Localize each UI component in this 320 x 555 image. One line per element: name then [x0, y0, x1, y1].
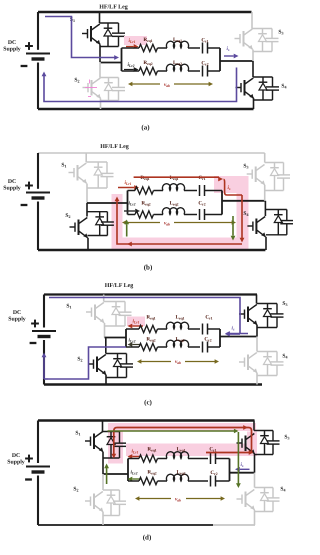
node a wire — [103, 473, 128, 475]
resistor Req1 — [139, 325, 158, 332]
current path purple top bus overlay — [49, 298, 240, 335]
junction bar right of tank — [221, 191, 223, 215]
wire top bus — [44, 293, 257, 295]
current arrow is pointing left — [240, 468, 250, 470]
diode D4 and capacitor C4 across S4 — [265, 209, 286, 211]
pink highlight right vertical — [247, 432, 257, 457]
wire left DC link — [37, 153, 39, 189]
inductor Leq2 — [166, 340, 188, 347]
wire S3 emitter grey — [264, 185, 266, 201]
wire S3 collector — [256, 295, 258, 304]
current path purple top segment — [45, 17, 115, 58]
node b wire — [220, 60, 253, 62]
wire Leq1 to Cr1 — [188, 328, 200, 330]
current path green arrow up at node a — [106, 468, 108, 485]
wire S2 collector grey — [99, 62, 101, 78]
node a wire — [105, 337, 127, 339]
capacitor Cr1 — [199, 185, 201, 196]
inductor Leq2 — [166, 474, 188, 481]
wire S4 emitter — [253, 98, 255, 109]
wire Leq1 to Cr1 — [184, 190, 197, 192]
current arrow iLr1 pointing left — [132, 325, 143, 327]
wire top bus grey — [38, 152, 265, 154]
diode D1 and capacitor C1 across S1 — [103, 431, 120, 433]
wire Cr1 to node b bar — [208, 328, 221, 330]
transistor S2 IGBT grey — [85, 500, 91, 502]
wire S1 collector grey — [103, 295, 105, 302]
gate off marks magenta on S2 — [85, 87, 97, 89]
current path green arrow down at S4 — [236, 483, 241, 488]
wire Cr2 to node b bar — [205, 214, 223, 216]
svg-text:S3: S3 — [243, 164, 248, 170]
wire Req2 to Leq2 — [158, 480, 168, 482]
battery minus sign — [21, 204, 28, 206]
wire S3 collector — [253, 421, 255, 431]
wire S4 emitter grey — [254, 510, 256, 525]
transistor S4 IGBT — [247, 225, 253, 227]
current path red jog down to is — [224, 179, 243, 195]
current path red arrow right into node b — [249, 450, 254, 455]
svg-text:S3: S3 — [282, 301, 287, 307]
svg-text:S2: S2 — [74, 78, 79, 84]
wire S2 emitter — [105, 375, 107, 385]
current path purple up to battery arrow — [43, 357, 45, 379]
wire bottom bus — [38, 524, 213, 526]
capacitor Cr1 — [202, 43, 204, 54]
capacitor Cr2 — [202, 342, 204, 353]
current path red arrow down at S4 — [240, 238, 245, 243]
svg-text:DC: DC — [12, 453, 20, 459]
transistor S1 IGBT grey — [69, 172, 75, 174]
current path red horizontal over Cr1 — [206, 452, 250, 454]
voltage arrow vab double-headed — [125, 222, 160, 224]
capacitor Cr1 — [202, 324, 204, 335]
current path red arrow right on top — [243, 425, 248, 430]
transistor S1 IGBT — [82, 33, 88, 35]
wire tank bottom branch lead — [122, 70, 140, 72]
battery plus sign — [25, 458, 33, 460]
svg-text:(a): (a) — [141, 124, 150, 132]
current path purple right and bottom return — [44, 68, 237, 102]
current path purple into node b arrow — [229, 333, 240, 335]
wire left DC link lower — [37, 202, 39, 251]
wire S1 collector grey — [85, 153, 87, 162]
current path red loop top — [114, 428, 252, 453]
wire Leq2 to Cr2 — [188, 480, 208, 482]
wire S2 emitter grey — [102, 512, 104, 525]
diode D4 and capacitor C4 across S4 — [253, 76, 273, 78]
wire left DC link lower — [37, 476, 39, 526]
battery minus sign — [21, 65, 28, 67]
current arrow iLr1 — [118, 187, 134, 189]
diode D1 and capacitor C1 across S1 grey — [104, 301, 125, 303]
wire Req1 to Leq1 — [158, 328, 168, 330]
current arrow iLr2 pointing left — [132, 344, 141, 346]
green arrow vcr right pointing down — [232, 216, 234, 236]
current arrow iLr2 — [124, 69, 134, 71]
resistor Req1 — [139, 455, 158, 462]
transistor S2 IGBT — [88, 363, 94, 365]
current path red arrow left on top branch — [132, 456, 141, 458]
capacitor Cr2 — [202, 66, 204, 77]
wire left DC link — [37, 421, 39, 464]
svg-text:S4: S4 — [280, 487, 285, 493]
battery V1 DC Supply — [26, 53, 50, 55]
battery plus sign — [31, 323, 39, 325]
capacitor Cr2 — [199, 209, 201, 220]
battery minus sign — [30, 342, 37, 344]
inductor Leq1 — [166, 452, 188, 459]
resistor Req2 — [139, 343, 158, 350]
transistor S2 IGBT grey — [83, 87, 89, 89]
junction bar left of tank — [127, 459, 129, 482]
wire Cr2 to node b bar — [208, 346, 221, 348]
wire S3 collector grey — [251, 12, 253, 29]
node b wire — [222, 200, 265, 202]
wire Leq1 to Cr1 — [188, 458, 208, 460]
capacitor Cr2 — [210, 476, 212, 487]
wire Leq2 to Cr2 — [184, 214, 197, 216]
resistor Req2 — [139, 477, 158, 484]
wire Req1 to Leq1 — [158, 458, 168, 460]
wire S3 emitter — [254, 454, 256, 473]
pink highlight bottom horizontal — [112, 238, 249, 250]
voltage arrow vab double-headed — [138, 498, 171, 500]
wire S1 collector — [99, 12, 101, 23]
resistor Req1 — [139, 44, 158, 51]
wire tank top branch lead — [128, 458, 139, 460]
diode D3 and capacitor C3 across S3 grey — [265, 162, 284, 164]
wire S1 collector — [102, 421, 104, 432]
current path red bottom horizontal — [117, 201, 242, 244]
svg-text:HF/LF Leg: HF/LF Leg — [105, 283, 134, 289]
diode D2 and capacitor C2 across S2 — [87, 211, 107, 213]
wire S4 collector — [264, 201, 266, 216]
wire S4 emitter grey — [256, 373, 258, 385]
wire Leq2 to Cr2 — [188, 346, 200, 348]
wire left DC link — [37, 12, 39, 50]
wire S1 emitter to node a — [99, 45, 101, 63]
junction bar right of tank — [229, 459, 231, 482]
wire S2 emitter — [87, 238, 89, 250]
inductor Leq2 — [162, 208, 184, 215]
current path red arrow right after Cr1 — [218, 177, 223, 182]
pink highlight Cr1 row — [126, 444, 247, 457]
wire Leq1 to Cr1 — [188, 47, 200, 49]
current path red right vertical down — [241, 195, 243, 239]
battery plus sign — [25, 45, 33, 47]
diode D2 and capacitor C2 across S2 — [106, 353, 127, 355]
wire S4 collector grey — [254, 473, 256, 488]
wire S1 emitter grey — [104, 323, 106, 338]
wire tank top branch lead — [128, 190, 136, 192]
battery minus sign — [25, 478, 32, 480]
diode D2 and capacitor C2 across S2 grey — [100, 77, 119, 79]
wire S2 emitter grey — [100, 99, 102, 110]
current path purple arrow up to battery — [42, 72, 47, 77]
pink highlight top horizontal — [108, 423, 256, 431]
wire bottom bus — [38, 108, 254, 111]
current path green right vertical — [237, 432, 239, 484]
capacitor Cr1 — [210, 453, 212, 464]
wire Req2 to Leq2 — [158, 346, 168, 348]
current path purple arrow into node a — [114, 55, 119, 60]
transistor S3 IGBT grey — [247, 173, 253, 175]
battery V1 DC Supply — [26, 466, 50, 468]
current path purple from node a down through S2 — [48, 347, 126, 379]
wire Req2 to Leq2 — [158, 70, 168, 72]
junction bar left of tank — [127, 191, 129, 215]
transistor S4 IGBT grey — [237, 498, 243, 500]
svg-text:S1: S1 — [66, 304, 71, 310]
pink highlight top corner — [214, 176, 249, 193]
current path red arrow left at bottom corner — [127, 242, 132, 247]
current path green loop top — [108, 430, 235, 432]
svg-text:S1: S1 — [75, 431, 80, 437]
wire top bus — [38, 11, 252, 14]
green arrow vcr left pointing up — [126, 224, 128, 236]
wire S1 emitter grey — [86, 184, 88, 204]
wire S2 collector — [86, 203, 88, 217]
wire left DC link lower — [43, 340, 45, 385]
wire S2 collector — [105, 338, 107, 354]
svg-text:S3: S3 — [278, 30, 283, 36]
battery V1 DC Supply — [26, 192, 50, 194]
wire Leq2 to Cr2 — [188, 70, 200, 72]
node a wire — [100, 62, 122, 64]
inductor Leq1 — [166, 322, 188, 329]
junction bar right of tank — [219, 329, 221, 347]
svg-text:(d): (d) — [143, 534, 152, 542]
current path red arrow up at node a — [115, 197, 120, 202]
diode D2 and capacitor C2 across S2 grey — [103, 489, 120, 491]
voltage arrow vab double-headed — [131, 83, 160, 85]
wire bottom bus — [38, 249, 265, 251]
wire S3 emitter grey — [252, 50, 254, 62]
transistor S4 IGBT — [236, 87, 242, 89]
current arrow is — [224, 55, 234, 57]
wire bottom bus — [44, 383, 262, 385]
wire S3 collector grey — [264, 153, 266, 163]
wire left DC link lower — [37, 63, 39, 110]
transistor S4 IGBT grey — [239, 361, 245, 363]
wire top bus — [38, 419, 255, 422]
junction bar left of tank — [125, 329, 127, 347]
svg-text:(b): (b) — [144, 264, 153, 272]
current arrow iLr2 — [124, 210, 135, 212]
svg-text:HF/LF Leg: HF/LF Leg — [99, 5, 128, 11]
svg-text:(c): (c) — [144, 399, 152, 407]
svg-text:S2: S2 — [77, 357, 82, 363]
svg-text:Supply: Supply — [3, 46, 21, 53]
diode D1 and capacitor C1 across S1 grey — [86, 161, 107, 163]
current path purple corner at bottom left — [44, 378, 48, 380]
wire Req1 to Leq1 — [158, 47, 168, 49]
inductor Leq2 — [166, 64, 188, 71]
wire S4 collector — [252, 61, 254, 77]
junction bar left of tank — [121, 48, 123, 71]
diode D4 and capacitor C4 across S4 grey — [255, 487, 274, 489]
transistor S3 IGBT — [237, 442, 243, 444]
diode D3 and capacitor C3 across S3 — [257, 303, 278, 305]
svg-text:S4: S4 — [281, 84, 286, 90]
svg-text:S3: S3 — [284, 435, 289, 441]
svg-text:Supply: Supply — [7, 459, 25, 466]
diode D3 and capacitor C3 across S3 — [254, 430, 273, 432]
svg-text:Supply: Supply — [3, 185, 21, 192]
pink highlight behind iLr1 label — [124, 36, 147, 45]
svg-text:S4: S4 — [282, 354, 287, 360]
wire S1 emitter to node a — [102, 452, 104, 474]
wire tank top branch lead — [122, 47, 140, 49]
wire Cr2 to node b bar — [216, 480, 230, 482]
wire left DC link — [43, 295, 45, 328]
diode D3 and capacitor C3 across S3 grey — [252, 28, 272, 30]
battery plus sign — [25, 185, 33, 187]
wire tank bottom branch lead — [128, 480, 139, 482]
wire Cr2 to node b bar — [208, 70, 221, 72]
pink highlight behind iLr1 label — [127, 317, 145, 327]
svg-text:HF/LF Leg: HF/LF Leg — [100, 144, 129, 150]
current arrow iLr1 — [126, 46, 134, 48]
battery V1 DC Supply — [32, 330, 56, 332]
wire S2 collector grey — [102, 474, 104, 490]
junction bar right of tank — [219, 48, 221, 71]
svg-text:S4: S4 — [243, 211, 248, 217]
pink highlight left vertical — [108, 431, 123, 464]
diode D4 and capacitor C4 across S4 grey — [257, 351, 277, 353]
wire S4 emitter — [265, 237, 267, 250]
diode D1 and capacitor C1 across S1 — [100, 22, 119, 24]
wire Cr1 to node b bar — [205, 190, 223, 192]
node b wire — [230, 472, 255, 474]
node b wire — [220, 336, 257, 338]
resistor Req2 — [139, 67, 158, 74]
resistor Req2 — [135, 211, 154, 218]
wire Req2 to Leq2 — [154, 214, 164, 216]
svg-text:S1: S1 — [61, 163, 66, 169]
transistor S3 IGBT — [239, 313, 245, 315]
svg-text:S2: S2 — [73, 487, 78, 493]
wire S3 emitter — [256, 325, 258, 337]
current path red arrow down at D1 — [111, 454, 116, 459]
wire tank bottom branch lead — [128, 214, 136, 216]
wire bottom bus grey segment — [213, 524, 255, 526]
transistor S1 IGBT grey — [86, 311, 92, 313]
wire S4 collector grey — [256, 337, 258, 352]
wire Cr1 to node b bar — [216, 458, 230, 460]
pink highlight right vertical — [237, 193, 249, 238]
node a wire — [87, 202, 128, 204]
current path red left vertical through D1 — [113, 431, 115, 455]
pink highlight left vertical — [112, 194, 123, 238]
wire tank top branch lead — [126, 328, 139, 330]
svg-text:S2: S2 — [65, 213, 70, 219]
voltage arrow vab double-headed — [140, 361, 171, 363]
current path green arrow right on top — [234, 429, 239, 434]
svg-text:DC: DC — [13, 310, 21, 316]
wire Req1 to Leq1 — [154, 190, 164, 192]
current arrow is pointing left — [230, 333, 248, 335]
wire Cr1 to node b bar — [208, 47, 221, 49]
current path red top over tank — [134, 176, 219, 178]
svg-text:DC: DC — [8, 179, 16, 185]
wire tank bottom branch lead — [126, 346, 139, 348]
transistor S3 IGBT grey — [235, 38, 241, 40]
svg-text:Supply: Supply — [8, 316, 26, 323]
resistor Req1 — [135, 187, 154, 194]
inductor Leq1 — [162, 184, 184, 191]
svg-text:DC: DC — [8, 40, 16, 46]
current arrow iLr2 green pointing left — [132, 478, 141, 480]
inductor Leq1 — [166, 41, 188, 48]
transistor S1 IGBT — [85, 440, 91, 442]
transistor S2 IGBT — [70, 226, 76, 228]
